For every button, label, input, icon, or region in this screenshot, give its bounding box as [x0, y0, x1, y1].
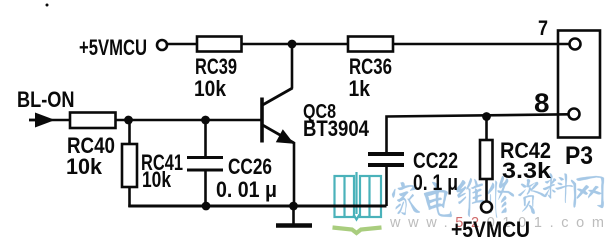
svg-text:+5VMCU: +5VMCU [79, 35, 147, 60]
svg-text:BT3904: BT3904 [303, 116, 370, 141]
svg-text:+5VMCU: +5VMCU [451, 217, 530, 242]
svg-text:CC26: CC26 [228, 154, 272, 179]
svg-text:0. 1 μ: 0. 1 μ [413, 170, 458, 195]
svg-text:8: 8 [534, 88, 550, 118]
svg-text:0. 01 μ: 0. 01 μ [216, 177, 277, 202]
svg-text:10k: 10k [194, 76, 227, 101]
svg-text:1k: 1k [349, 76, 371, 101]
svg-text:BL-ON: BL-ON [17, 87, 75, 112]
svg-text:3.3k: 3.3k [502, 158, 552, 183]
svg-text:7: 7 [538, 17, 548, 40]
svg-text:P3: P3 [565, 142, 593, 170]
svg-text:10k: 10k [142, 167, 172, 192]
svg-text:10k: 10k [66, 154, 103, 179]
